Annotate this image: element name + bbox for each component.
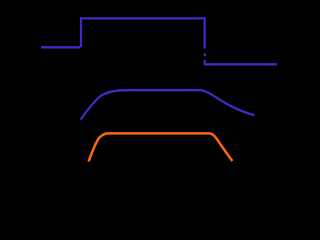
inductor current curve: rising edge bbox=[89, 133, 107, 161]
gate pulse waveform: left low segment bbox=[41, 46, 80, 48]
drain voltage curve: rising edge bbox=[81, 90, 128, 119]
gate pulse waveform: falling edge solid part bbox=[204, 17, 206, 48]
drain voltage curve: flat top bbox=[118, 89, 201, 91]
gate pulse waveform: rising edge bbox=[80, 18, 82, 47]
gate pulse waveform: falling edge dash 1 bbox=[204, 53, 206, 56]
gate pulse waveform: falling edge dash 2 bbox=[204, 60, 206, 63]
gate pulse waveform: high segment bbox=[80, 17, 206, 19]
gate pulse waveform: right low segment bbox=[205, 63, 277, 66]
inductor current curve: falling edge bbox=[210, 133, 233, 161]
inductor current curve: flat top bbox=[107, 132, 210, 135]
drain voltage curve: falling tail bbox=[201, 90, 255, 115]
